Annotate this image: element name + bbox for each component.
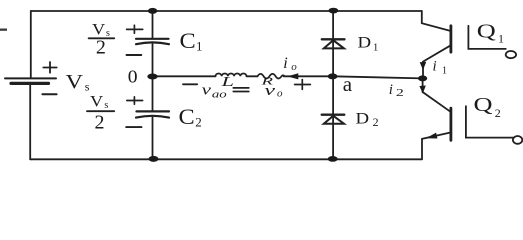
- svg-text:2: 2: [195, 115, 202, 130]
- fraction bar Vs/2 bottom: [87, 110, 114, 112]
- svg-text:C: C: [180, 28, 196, 53]
- junction dot transistor midpoint: [418, 75, 427, 81]
- label D1: [358, 34, 379, 53]
- label current i2: [389, 82, 404, 99]
- label Vs/2 bottom: [90, 93, 108, 133]
- wire left vertical upper: [30, 11, 32, 78]
- transistor Q1 base bar: [449, 26, 452, 52]
- wire bottom rail: [30, 158, 422, 160]
- svg-text:2: 2: [373, 115, 379, 129]
- label vao: [202, 82, 228, 100]
- transistor Q2 base bar: [449, 108, 452, 140]
- transistor Q2 emitter lead: [422, 133, 450, 160]
- wire node a to transistor junction: [333, 76, 423, 78]
- svg-text:C: C: [179, 104, 195, 129]
- battery plus sign: [43, 62, 56, 73]
- junction dot bottom capacitor: [149, 156, 159, 162]
- svg-text:1: 1: [498, 32, 504, 46]
- svg-text:Q: Q: [474, 94, 494, 116]
- svg-text:1: 1: [442, 65, 447, 76]
- label current io: [283, 55, 297, 73]
- svg-text:1: 1: [196, 39, 203, 54]
- label Vs/2 top: [92, 22, 110, 59]
- minus sign vao: [183, 83, 197, 85]
- battery Vs top plate: [5, 77, 56, 79]
- svg-text:2: 2: [96, 37, 106, 59]
- arrowhead current io: [287, 73, 298, 79]
- plus sign vo: [295, 80, 311, 90]
- junction dot top capacitor: [148, 8, 157, 14]
- svg-text:0: 0: [128, 67, 138, 87]
- label Q2: [474, 94, 501, 120]
- svg-text:s: s: [106, 28, 110, 39]
- wire coil to resistor: [247, 75, 258, 77]
- svg-text:s: s: [85, 80, 90, 94]
- capacitor C1 top plate: [136, 38, 169, 40]
- junction dot top diode: [329, 8, 339, 14]
- transistor Q1 collector lead: [422, 11, 451, 31]
- transistor Q1 gate terminal circle: [506, 51, 516, 58]
- svg-text:ao: ao: [212, 88, 227, 100]
- svg-text:i: i: [433, 59, 437, 75]
- label C2: [179, 104, 202, 130]
- svg-text:V: V: [66, 72, 84, 93]
- transistor Q2 gate terminal circle: [513, 136, 522, 144]
- wire capacitor branch upper: [152, 11, 154, 38]
- diode D2 triangle: [324, 116, 344, 124]
- battery minus sign: [42, 93, 56, 95]
- junction dot bottom diode: [328, 156, 338, 162]
- svg-text:1: 1: [373, 42, 379, 54]
- capacitor C2 top plate: [137, 110, 170, 112]
- diode branch vertical wire: [332, 11, 334, 159]
- transistor Q1 gate lead: [468, 26, 505, 49]
- diode D1 cathode bar: [322, 38, 345, 40]
- transistor Q2 collector lead: [423, 78, 451, 111]
- capacitor C1 bottom plate: [136, 42, 169, 44]
- battery Vs bottom plate: [11, 82, 49, 85]
- svg-text:V: V: [90, 93, 104, 110]
- svg-text:a: a: [343, 72, 353, 96]
- svg-text:2: 2: [495, 106, 501, 120]
- svg-text:2: 2: [95, 112, 105, 134]
- label D2: [356, 111, 379, 129]
- label Vs battery: [66, 72, 90, 94]
- svg-text:v: v: [265, 83, 276, 99]
- label Q1: [477, 20, 504, 45]
- svg-text:D: D: [356, 111, 370, 128]
- wire top rail: [31, 10, 422, 12]
- diode D1 triangle: [324, 40, 344, 48]
- fraction bar Vs/2 top: [89, 37, 115, 39]
- equals sign: [233, 88, 249, 92]
- plus sign C2: [127, 97, 143, 104]
- transistor Q1 emitter lead: [423, 46, 450, 79]
- arrowhead current i1: [420, 62, 427, 70]
- capacitor C2 bottom plate: [136, 116, 169, 118]
- scan artifact left edge: [0, 29, 7, 31]
- svg-text:2: 2: [396, 87, 404, 99]
- wire C2 to bottom rail: [152, 117, 154, 159]
- arrowhead Q2 emitter: [426, 133, 437, 139]
- arrowhead current i2: [419, 86, 425, 94]
- resistor R zigzag: [258, 74, 285, 79]
- svg-text:D: D: [358, 34, 372, 51]
- wire left vertical lower: [29, 85, 31, 159]
- minus sign C1: [127, 54, 142, 56]
- wire C1 to node 0: [152, 44, 154, 76]
- svg-text:v: v: [202, 82, 212, 98]
- plus sign C1: [127, 25, 143, 33]
- wire resistor to node a: [284, 75, 333, 77]
- label vo: [265, 83, 284, 100]
- svg-text:o: o: [277, 88, 283, 100]
- wire node 0 to load: [153, 75, 216, 77]
- diode D2 cathode bar: [322, 114, 345, 116]
- svg-text:o: o: [291, 61, 297, 73]
- inductor L coil: [216, 73, 247, 76]
- transistor Q2 gate lead: [466, 106, 513, 137]
- junction dot node a: [328, 73, 338, 79]
- minus sign C2: [126, 126, 141, 128]
- junction dot node 0: [147, 74, 157, 80]
- wire node 0 to C2: [152, 76, 154, 111]
- svg-text:Q: Q: [477, 20, 497, 42]
- svg-text:i: i: [389, 82, 393, 98]
- label current i1: [433, 59, 448, 77]
- svg-text:i: i: [283, 55, 287, 72]
- label C1: [180, 28, 203, 54]
- svg-text:s: s: [104, 100, 108, 111]
